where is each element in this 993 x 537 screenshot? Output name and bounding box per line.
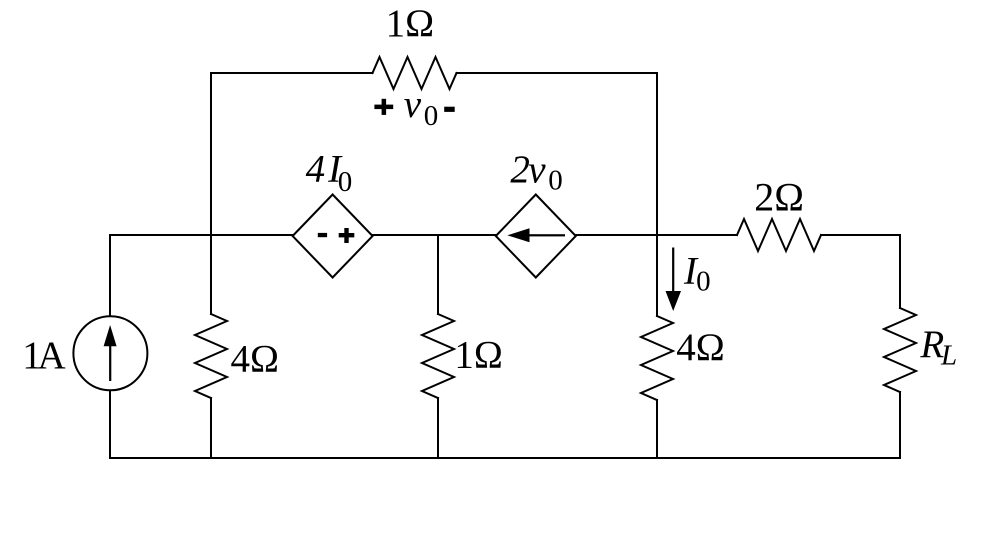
resistor 4-ohm (right branch) [641,316,673,400]
resistor RL (load) [884,308,916,392]
resistor 1-ohm (top) [373,57,457,89]
wire left vertical upper (node B down through middle node A) [210,73,212,314]
svg-text:4: 4 [306,148,326,191]
wire middle branch lower (1-ohm to bottom) [437,398,439,458]
svg-text:v: v [404,83,422,126]
polarity minus sign inside 4I0 diamond [318,233,327,237]
svg-text:1A: 1A [22,334,65,377]
svg-text:0: 0 [548,165,563,197]
wire RL branch upper (right corner down to RL) [899,235,901,308]
dependent voltage source 4I0 diamond [293,195,373,278]
svg-text:0: 0 [696,266,711,298]
resistor 1-ohm (middle branch) [422,314,454,398]
resistor 2-ohm (middle right) [737,219,821,251]
svg-text:0: 0 [424,100,439,132]
wire left branch lower (4-ohm to bottom node) [210,398,212,458]
wire middle horizontal left segment (1A node to 4I0 source) [110,234,293,236]
svg-text:4Ω: 4Ω [676,326,724,369]
wire middle horizontal between dependent sources [373,234,496,236]
wire 1A source branch upper [109,235,111,316]
svg-text:L: L [940,339,957,371]
dependent current source 2v0 diamond [496,195,576,278]
polarity plus sign of v0 [374,99,393,115]
svg-text:v: v [528,148,546,191]
wire bottom horizontal (ground rail) [110,457,900,459]
svg-text:0: 0 [338,166,353,198]
wire top-right horizontal (resistor to node C) [457,72,658,74]
svg-text:1Ω: 1Ω [454,334,502,377]
dependent source 2v0 arrow (points left) [507,228,565,242]
svg-text:2Ω: 2Ω [754,174,804,219]
wire middle branch upper (node to 1-ohm resistor) [437,235,439,314]
wire 1A source branch lower [109,390,111,458]
wire right 4-ohm branch lower [656,400,658,458]
svg-text:2: 2 [510,148,530,191]
svg-text:1Ω: 1Ω [386,2,434,45]
resistor 4-ohm (left branch) [195,314,227,398]
svg-text:4Ω: 4Ω [231,337,279,380]
wire RL branch lower [899,392,901,458]
current source 1A circle [73,316,147,390]
wire right 4-ohm branch upper (node C down through middle wire) [656,73,658,316]
wire middle horizontal right (2-ohm to right corner) [821,234,900,236]
current I0 arrow (points down) [666,248,682,312]
polarity minus sign of v0 [444,107,455,112]
polarity plus sign inside 4I0 diamond [339,228,355,243]
wire middle horizontal (2v0 source to 2-ohm resistor) [576,234,737,236]
wire top-left horizontal (node B to 1-ohm top resistor) [211,72,373,74]
current source 1A arrow (points up) [104,325,117,381]
